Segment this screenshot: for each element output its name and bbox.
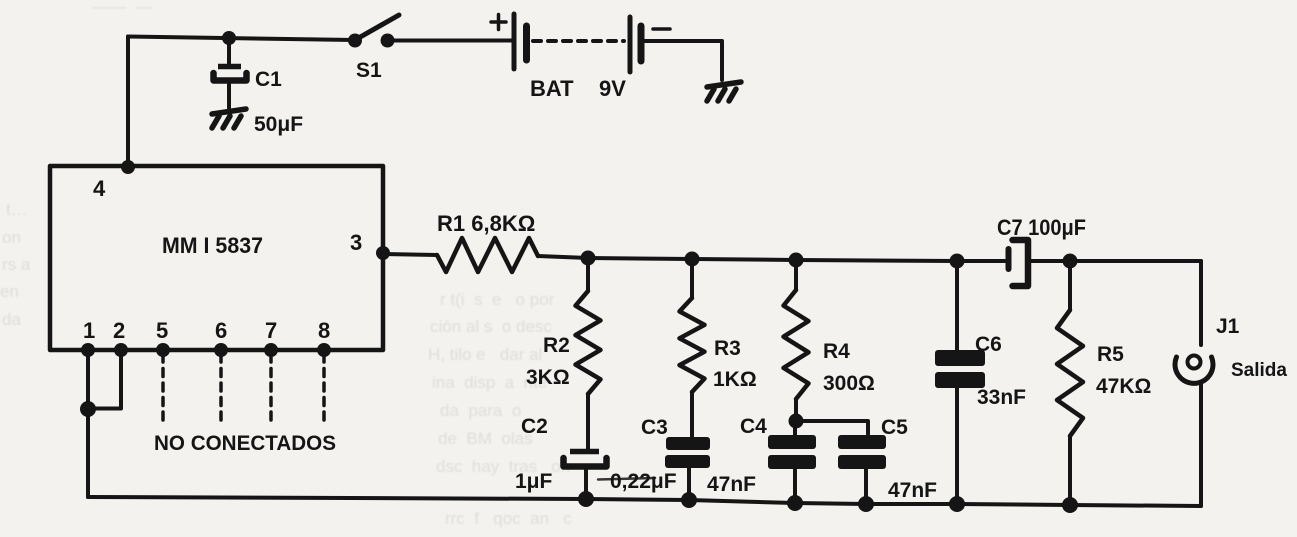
wire pin 8 not connected (dashed) — [322, 354, 326, 424]
wire pin 3 to resistor R1 — [383, 254, 437, 255]
label C3 — [641, 416, 668, 439]
svg-text:da: da — [2, 310, 21, 329]
node R4 bottom junction — [789, 414, 804, 429]
node A — [581, 251, 596, 266]
svg-text:en: en — [0, 282, 19, 301]
label pin 2 — [113, 318, 125, 343]
label R4 value 300Ohm — [823, 372, 875, 395]
label pin 4 — [93, 176, 106, 201]
scan artifact line through 0,22 — [598, 478, 655, 480]
wire ground rail C5 to C6 — [866, 502, 957, 506]
svg-text:8: 8 — [318, 318, 330, 343]
svg-text:33nF: 33nF — [977, 386, 1026, 409]
label C5 value 47nF — [888, 479, 937, 502]
wire C7 to node E — [1031, 259, 1070, 263]
resistor R4 — [784, 260, 809, 421]
node C4 bottom on ground rail — [787, 495, 803, 511]
op-amp U1 IC MM5837 body — [50, 166, 383, 350]
svg-text:2: 2 — [113, 318, 125, 343]
node E — [1063, 254, 1078, 269]
svg-text:7: 7 — [265, 318, 277, 343]
node C5 bottom on ground rail — [858, 496, 874, 512]
label pin 3 — [350, 230, 362, 255]
svg-text:3KΩ: 3KΩ — [526, 366, 570, 389]
wire mid rail node A to node B — [588, 258, 692, 259]
wire pin 7 not connected (dashed) — [269, 354, 273, 424]
label 9V — [599, 76, 626, 101]
label pin 6 — [215, 318, 227, 343]
node D — [950, 254, 965, 269]
label C7 100uF — [997, 215, 1086, 240]
wire mid rail node C to node D — [796, 260, 957, 261]
svg-text:6: 6 — [215, 318, 227, 343]
node C — [789, 253, 804, 268]
resistor R1 — [437, 238, 538, 272]
label pin 8 — [318, 318, 330, 343]
label BAT — [530, 76, 574, 101]
capacitor C3 — [665, 437, 710, 500]
label C1 — [255, 68, 282, 91]
wire left riser from top rail to IC pin 4 — [126, 37, 130, 169]
label MM I 5837 — [162, 233, 263, 258]
svg-text:4: 4 — [93, 176, 106, 201]
capacitor C1 — [214, 38, 247, 108]
svg-text:50μF: 50μF — [254, 113, 303, 136]
pin 3 node — [376, 246, 390, 260]
wire pin 5 not connected (dashed) — [161, 354, 165, 424]
ground battery — [707, 82, 741, 101]
svg-text:de BM olas: de BM olas — [438, 429, 533, 448]
label R2 value 3KOhm — [526, 366, 570, 389]
svg-text:5: 5 — [156, 318, 168, 343]
label R5 value 47KOhm — [1096, 375, 1151, 398]
label C2 value 1uF — [515, 470, 553, 493]
svg-text:rrc f qoc an c: rrc f qoc an c — [445, 509, 572, 528]
wire node E to connector J1 — [1070, 259, 1201, 263]
wire ground rail C4 to C5 — [795, 503, 866, 504]
label J1 — [1216, 315, 1240, 338]
wire ground rail C6 to R5 — [957, 504, 1070, 505]
wire top rail from riser to switch S1 — [128, 37, 354, 41]
svg-text:C1: C1 — [255, 68, 282, 91]
svg-text:R3: R3 — [714, 337, 741, 360]
label NO CONECTADOS — [154, 432, 336, 455]
pin 1 node — [81, 343, 95, 357]
svg-text:ción al s o desc: ción al s o desc — [430, 317, 552, 336]
label C5 — [881, 416, 908, 439]
capacitor C7 — [1009, 240, 1029, 286]
pin 5 node — [156, 343, 170, 357]
svg-text:C6: C6 — [975, 333, 1002, 356]
svg-text:on: on — [2, 228, 21, 247]
label C6 value 33nF — [977, 386, 1026, 409]
pin 7 node — [264, 343, 278, 357]
svg-text:C4: C4 — [740, 415, 767, 438]
node pin1-pin2 junction — [80, 401, 96, 417]
ground C1 — [212, 109, 246, 128]
svg-text:S1: S1 — [356, 59, 382, 82]
svg-text:MM I 5837: MM I 5837 — [162, 233, 263, 258]
label pin 1 — [83, 318, 95, 343]
connector J1 output jack — [1175, 261, 1213, 506]
svg-text:R2: R2 — [543, 334, 570, 357]
capacitor C4 — [768, 421, 816, 503]
wire R1 to node A — [538, 256, 588, 258]
label Salida — [1231, 360, 1287, 381]
label R3 — [714, 337, 741, 360]
svg-text:47nF: 47nF — [707, 473, 756, 496]
svg-text:R1 6,8KΩ: R1 6,8KΩ — [437, 211, 535, 236]
node C2 bottom on ground rail — [578, 491, 594, 507]
label R3 value 1KOhm — [713, 368, 757, 391]
svg-text:1μF: 1μF — [515, 470, 553, 493]
svg-text:3: 3 — [350, 230, 362, 255]
svg-text:Salida: Salida — [1231, 360, 1287, 381]
svg-text:C7 100μF: C7 100μF — [997, 215, 1086, 240]
svg-text:0,22μF: 0,22μF — [610, 470, 677, 493]
label battery minus sign — [653, 27, 670, 31]
label R5 — [1097, 343, 1124, 366]
svg-text:47KΩ: 47KΩ — [1096, 375, 1151, 398]
wire R4 junction to capacitor C5 — [796, 421, 868, 434]
svg-text:t…: t… — [6, 200, 28, 219]
label R4 — [823, 340, 850, 363]
node C3 bottom on ground rail — [681, 492, 697, 508]
wire pin 2 jumper to pin 1 wire — [91, 350, 121, 409]
wire ground rail R5 to J1 — [1070, 505, 1201, 506]
svg-text:—— —: —— — — [92, 0, 152, 16]
svg-text:R5: R5 — [1097, 343, 1124, 366]
label C2 — [521, 415, 548, 438]
label C1 value 50uF — [254, 113, 303, 136]
svg-text:rs a: rs a — [2, 255, 31, 274]
wire node D to capacitor C7 — [957, 259, 1005, 263]
svg-text:NO CONECTADOS: NO CONECTADOS — [154, 432, 336, 455]
node C1 top junction — [222, 31, 236, 45]
svg-text:1KΩ: 1KΩ — [713, 368, 757, 391]
svg-text:da para o: da para o — [440, 401, 521, 420]
node B — [685, 252, 700, 267]
node C6 bottom on ground rail — [949, 496, 965, 512]
pin 4 node — [121, 160, 135, 174]
label pin 5 — [156, 318, 168, 343]
svg-text:BAT: BAT — [530, 76, 574, 101]
label S1 — [356, 59, 382, 82]
label C3 value 47nF — [707, 473, 756, 496]
wire pin 6 not connected (dashed) — [219, 354, 223, 424]
label R2 — [543, 334, 570, 357]
pin 2 node — [114, 343, 128, 357]
svg-text:9V: 9V — [599, 76, 626, 101]
capacitor C6 — [935, 261, 985, 504]
svg-text:300Ω: 300Ω — [823, 372, 875, 395]
resistor R2 — [576, 258, 601, 449]
svg-text:R4: R4 — [823, 340, 850, 363]
wire switch to battery positive plate — [387, 39, 512, 43]
svg-text:C5: C5 — [881, 416, 908, 439]
pin 8 node — [317, 343, 331, 357]
label C4 — [740, 415, 767, 438]
svg-text:J1: J1 — [1216, 315, 1240, 338]
wire mid rail node B to node C — [692, 259, 796, 260]
svg-text:C3: C3 — [641, 416, 668, 439]
label 0,22uF — [610, 470, 677, 493]
wire ground rail left segment — [88, 497, 586, 499]
svg-text:C2: C2 — [521, 415, 548, 438]
wire ground rail C2 to C3 — [586, 499, 689, 500]
label R1 6,8KOhm — [437, 211, 535, 236]
svg-text:1: 1 — [83, 318, 95, 343]
pin 6 node — [214, 343, 228, 357]
resistor R5 — [1057, 261, 1083, 505]
svg-text:H, tilo e dar al: H, tilo e dar al — [428, 345, 542, 364]
wire battery negative to ground — [645, 41, 722, 80]
label pin 7 — [265, 318, 277, 343]
svg-text:47nF: 47nF — [888, 479, 937, 502]
wire ground rail C3 to C4 — [689, 500, 795, 503]
capacitor C2 — [564, 452, 607, 500]
switch S1 — [348, 15, 399, 48]
battery BAT 9V — [514, 14, 641, 72]
node R5 bottom on ground rail — [1062, 497, 1078, 513]
resistor R3 — [680, 259, 705, 438]
wire pin 1 down to ground rail — [86, 350, 90, 497]
svg-text:r t(i s e o por: r t(i s e o por — [440, 290, 555, 309]
label battery plus sign — [491, 15, 506, 30]
label C6 — [975, 333, 1002, 356]
capacitor C5 — [838, 435, 886, 504]
